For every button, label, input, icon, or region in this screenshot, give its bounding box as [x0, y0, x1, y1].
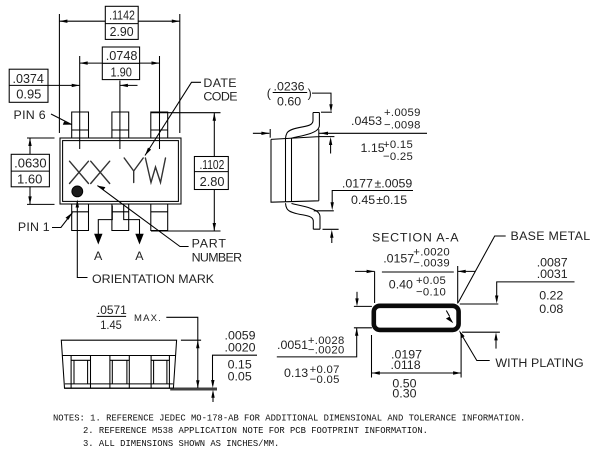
svg-text:1.60: 1.60 — [17, 172, 42, 187]
lead cross-section with plating (thick rounded rect) — [374, 306, 459, 330]
extension of lead seating — [323, 228, 339, 230]
side view body outline — [271, 129, 319, 202]
foot bottom line extended — [65, 387, 218, 389]
svg-text:.0118: .0118 — [391, 358, 421, 372]
svg-text:SECTION A-A: SECTION A-A — [372, 231, 459, 245]
front view body outline — [61, 340, 176, 388]
svg-text:PIN 1: PIN 1 — [18, 220, 50, 234]
svg-text:DATE: DATE — [203, 76, 237, 90]
pin bottom-right — [151, 204, 168, 231]
up arrow of (.0236) vertical reference — [330, 140, 332, 154]
svg-text:.0020: .0020 — [225, 340, 256, 354]
svg-text:MAX.: MAX. — [134, 313, 162, 324]
svg-text:(: ( — [267, 87, 272, 101]
svg-text:0.08: 0.08 — [539, 302, 563, 316]
svg-text:3. ALL DIMENSIONS SHOWN AS INC: 3. ALL DIMENSIONS SHOWN AS INCHES/MM. — [83, 439, 279, 449]
svg-text:1.45: 1.45 — [100, 318, 122, 332]
package body inner outline — [63, 141, 179, 202]
svg-text:+.0059: +.0059 — [384, 107, 421, 119]
front pin right — [151, 356, 169, 389]
svg-text:1.90: 1.90 — [110, 65, 132, 80]
extension of lead top surface — [321, 111, 332, 113]
svg-text:0.95: 0.95 — [16, 87, 41, 102]
body seam line — [62, 355, 175, 357]
bottom lead (bent gull-wing) — [286, 203, 321, 229]
svg-text:−.0020: −.0020 — [308, 344, 345, 356]
svg-text:1.15: 1.15 — [361, 141, 385, 155]
dimension .0453 +.0059 -.0098 / 1.15 +0.15 -0.25 — [269, 129, 271, 138]
front pin middle — [110, 356, 129, 389]
svg-text:ORIENTATION MARK: ORIENTATION MARK — [92, 272, 215, 286]
svg-text:PART: PART — [192, 237, 227, 251]
svg-text:+0.15: +0.15 — [383, 139, 413, 151]
front pin left — [71, 356, 90, 389]
svg-text:−.0098: −.0098 — [384, 120, 421, 132]
svg-text:2. REFERENCE M538 APPLICATION: 2. REFERENCE M538 APPLICATION NOTE FOR P… — [83, 426, 428, 436]
svg-text:.0031: .0031 — [537, 267, 568, 281]
dimension .0630/1.60 body height — [27, 138, 55, 204]
orientation mark (filled circle) — [72, 186, 83, 197]
svg-text:CODE: CODE — [203, 90, 237, 104]
svg-text:0.13: 0.13 — [284, 366, 308, 380]
extension of lead underside at body — [314, 210, 334, 212]
svg-text:0.45: 0.45 — [351, 193, 375, 207]
pin bottom-middle — [112, 204, 129, 231]
svg-text:WITH PLATING: WITH PLATING — [495, 356, 583, 370]
pin top-middle — [112, 112, 129, 138]
pin top-left (pin 6) — [72, 112, 89, 138]
svg-text:0.30: 0.30 — [392, 387, 416, 401]
body bottom edge segments — [65, 383, 173, 385]
seating plane line — [170, 389, 217, 391]
svg-text:.0051: .0051 — [277, 338, 308, 352]
svg-text:0.22: 0.22 — [539, 289, 563, 303]
svg-text:0.60: 0.60 — [277, 95, 301, 109]
body top extension line — [181, 339, 201, 341]
dimension .0374/0.95 pin pitch — [119, 81, 121, 150]
marking text XX YW drawn as strokes — [70, 158, 166, 184]
svg-text:−0.25: −0.25 — [383, 151, 413, 163]
package body outer outline — [60, 138, 181, 204]
svg-text:.1102: .1102 — [199, 157, 224, 172]
svg-text:A: A — [94, 249, 103, 263]
svg-text:.0177: .0177 — [342, 177, 373, 191]
section cut line A-A right — [124, 206, 140, 237]
svg-text:.0236: .0236 — [274, 80, 305, 94]
svg-text:.0157: .0157 — [383, 251, 414, 265]
section cut line A-A left — [98, 206, 112, 237]
pin top-right — [151, 112, 168, 138]
svg-text:−0.05: −0.05 — [310, 374, 340, 386]
svg-text:.1142: .1142 — [109, 8, 135, 23]
base metal inner arrow — [446, 311, 449, 317]
body top edge right extension — [319, 136, 335, 138]
pin bottom-left (pin 1) — [72, 204, 89, 231]
svg-text:NUMBER: NUMBER — [192, 251, 242, 265]
lead frame plane lines — [286, 138, 292, 202]
dimension .0748/1.90 outer pin pitch — [80, 56, 160, 149]
svg-text:.0748: .0748 — [106, 48, 138, 63]
svg-text:−0.10: −0.10 — [416, 286, 446, 298]
svg-text:.0453: .0453 — [351, 114, 382, 128]
svg-text:.0571: .0571 — [97, 303, 127, 317]
svg-text:+0.05: +0.05 — [416, 275, 446, 287]
top lead (bent gull-wing) — [286, 113, 320, 139]
svg-text:−.0039: −.0039 — [413, 257, 450, 269]
svg-text:2.80: 2.80 — [200, 174, 225, 189]
svg-text:±.0059: ±.0059 — [375, 177, 413, 191]
dimension .1142/2.90 overall width — [59, 14, 179, 133]
svg-text:NOTES: 1. REFERENCE JEDEC MO-1: NOTES: 1. REFERENCE JEDEC MO-178-AB FOR … — [53, 414, 525, 424]
svg-text:±0.15: ±0.15 — [376, 193, 407, 207]
svg-text:0.40: 0.40 — [389, 278, 413, 292]
svg-text:2.90: 2.90 — [110, 24, 134, 39]
svg-text:.0630: .0630 — [14, 155, 47, 170]
svg-text:.0374: .0374 — [13, 71, 44, 86]
svg-text:): ) — [308, 87, 312, 101]
svg-text:BASE METAL: BASE METAL — [511, 229, 591, 243]
svg-text:0.05: 0.05 — [228, 370, 252, 384]
dimension .1102/2.80 overall height — [151, 113, 221, 231]
svg-text:PIN 6: PIN 6 — [14, 108, 47, 122]
svg-text:A: A — [135, 249, 144, 263]
